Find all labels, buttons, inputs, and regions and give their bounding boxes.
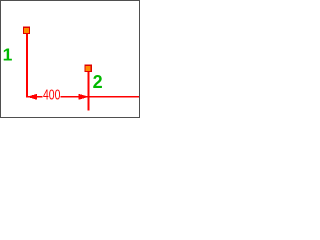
- svg-text:2: 2: [93, 72, 103, 92]
- dimension line left segment: [27, 96, 43, 98]
- right arrowhead: [79, 94, 90, 100]
- canvas border frame: [1, 1, 140, 118]
- svg-text:1: 1: [3, 45, 13, 65]
- svg-text:400: 400: [43, 88, 60, 104]
- extension line 2 (right vertical): [88, 72, 90, 111]
- dimension line right segment: [61, 96, 140, 98]
- grip 1 (hover grip square on first dimension point): [23, 27, 29, 33]
- extension line 1 (left vertical): [26, 34, 28, 98]
- left arrowhead: [27, 94, 37, 100]
- grip 2 (hover grip square on second dimension point): [85, 65, 91, 71]
- drawing canvas background: [0, 0, 141, 118]
